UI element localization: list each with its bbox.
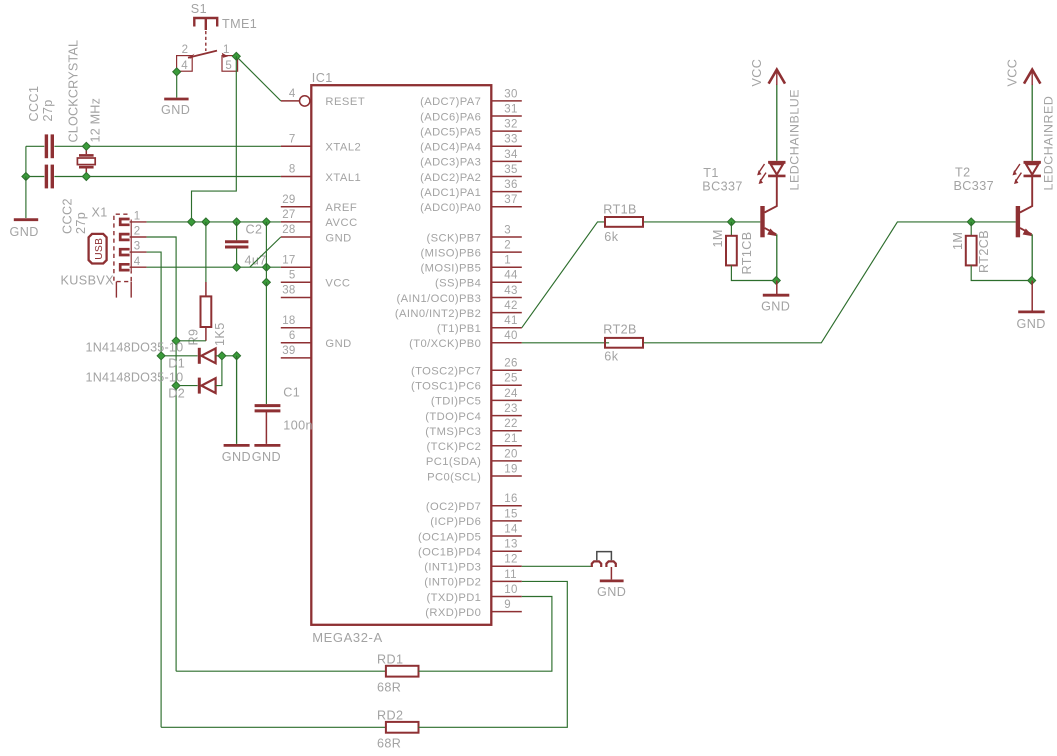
junction RT2CB top — [967, 218, 975, 226]
X1 contact finger pin 3 — [120, 249, 129, 255]
IC1 pin 44 (SS)PB4 — [491, 281, 522, 283]
junction AVCC net — [202, 218, 210, 226]
pushbutton S2 contact right — [606, 561, 615, 567]
resistor RD1 — [386, 666, 419, 677]
X1 pin line 1 — [130, 221, 147, 223]
svg-text:RD1: RD1 — [377, 653, 403, 667]
wire RD2 left (USB D+) — [161, 726, 386, 728]
IC1 pin 37 (ADC0)PA0 — [491, 206, 522, 208]
junction S1 pin4 — [173, 68, 181, 76]
IC1 pin 4 RESET (inverted) — [281, 100, 299, 102]
svg-text:(ADC2)PA2: (ADC2)PA2 — [420, 172, 481, 184]
S1 actuator bracket — [194, 18, 217, 30]
svg-text:CCC1: CCC1 — [27, 86, 41, 122]
svg-text:68R: 68R — [377, 737, 401, 751]
IC1 pin 1 (MOSI)PB5 — [491, 266, 522, 268]
svg-text:6: 6 — [289, 330, 296, 342]
ground bar (C1) — [254, 444, 280, 447]
svg-text:6k: 6k — [604, 349, 618, 363]
svg-text:18: 18 — [282, 315, 295, 327]
wire USB pin1 to AVCC net — [147, 221, 281, 223]
capacitor C1 — [255, 404, 281, 407]
svg-text:6k: 6k — [604, 230, 618, 244]
junction crystal bottom — [82, 173, 90, 181]
IC1 pin 29 AREF — [281, 206, 312, 208]
svg-text:1N4148DO35-10: 1N4148DO35-10 — [86, 341, 184, 355]
junction D1 left — [157, 352, 165, 360]
wire RT2CB top lead — [970, 222, 972, 236]
svg-text:36: 36 — [504, 179, 517, 191]
resistor R9 leads — [205, 282, 207, 296]
svg-text:24: 24 — [504, 388, 518, 400]
wire C1 to ground — [265, 411, 267, 444]
S1 pin box 4 — [177, 56, 193, 72]
junction T2 emitter — [1028, 277, 1036, 285]
junction C2 bottom — [233, 263, 241, 271]
wire RT1B to T1 base — [644, 221, 760, 223]
svg-text:2: 2 — [182, 44, 189, 56]
svg-text:C1: C1 — [283, 386, 300, 400]
wire T2 to ground — [1031, 281, 1033, 312]
svg-text:1: 1 — [223, 44, 230, 56]
IC1 pin 24 (TDI)PC5 — [491, 399, 522, 401]
svg-text:CLOCKCRYSTAL: CLOCKCRYSTAL — [67, 40, 81, 143]
S1 contact mark right — [222, 53, 228, 58]
LED LED1 (blue chain) emission arrow 1 — [759, 164, 765, 172]
wire USB pin4 to VCC pin17 — [147, 266, 281, 268]
junction crystal top — [82, 142, 90, 150]
wire PB1 to RT1B (diagonal) — [522, 222, 605, 328]
svg-text:C2: C2 — [246, 223, 263, 237]
svg-text:4: 4 — [181, 60, 188, 72]
svg-text:AREF: AREF — [325, 202, 357, 214]
svg-text:VCC: VCC — [1005, 59, 1019, 87]
wire S1 pin5 to RESET (diagonal) — [236, 56, 280, 101]
junction VCC pin5 — [262, 278, 270, 286]
svg-text:(RXD)PD0: (RXD)PD0 — [425, 607, 481, 619]
resistor RT2CB — [966, 236, 977, 266]
IC1 pin 32 (ADC5)PA5 — [491, 130, 522, 132]
svg-text:(TMS)PC3: (TMS)PC3 — [425, 426, 481, 438]
wire C2 bottom lead — [236, 249, 238, 268]
svg-text:PC1(SDA): PC1(SDA) — [426, 456, 481, 468]
IC1 pin 12 (INT1)PD3 — [491, 565, 522, 567]
svg-text:17: 17 — [282, 254, 295, 266]
svg-text:1M: 1M — [711, 229, 725, 247]
resistor RD2 — [386, 722, 419, 733]
LED LED1 (blue chain) triangle — [771, 164, 783, 174]
svg-text:(ADC3)PA3: (ADC3)PA3 — [420, 157, 481, 169]
svg-text:(ADC0)PA0: (ADC0)PA0 — [420, 202, 481, 214]
capacitor CCC2 — [45, 165, 48, 189]
ground bar (T1) — [763, 294, 790, 297]
IC1 pin 2 (MISO)PB6 — [491, 251, 522, 253]
wire D1 cathode — [216, 355, 237, 357]
svg-text:GND: GND — [10, 225, 39, 239]
IC1 pin 31 (ADC6)PA6 — [491, 115, 522, 117]
X1 right edge — [130, 220, 132, 273]
svg-text:13: 13 — [504, 539, 517, 551]
svg-text:T1: T1 — [703, 166, 719, 180]
svg-text:10: 10 — [504, 584, 517, 596]
IC1 pin 30 (ADC7)PA7 — [491, 100, 522, 102]
svg-text:2: 2 — [504, 240, 511, 252]
wire S1 pin5 down to VCC net — [192, 56, 237, 222]
transistor T2 emitter — [1020, 228, 1032, 234]
svg-text:(OC2)PD7: (OC2)PD7 — [426, 501, 481, 513]
svg-text:GND: GND — [222, 450, 251, 464]
wire caps to ground — [25, 177, 27, 219]
svg-text:(MISO)PB6: (MISO)PB6 — [421, 247, 482, 259]
wire cap join left — [25, 146, 27, 176]
svg-text:(TDI)PC5: (TDI)PC5 — [431, 396, 481, 408]
svg-text:GND: GND — [1017, 317, 1046, 331]
svg-text:21: 21 — [504, 433, 517, 445]
svg-text:GND: GND — [325, 338, 351, 350]
svg-text:(T1)PB1: (T1)PB1 — [437, 323, 481, 335]
junction AVCC net — [188, 218, 196, 226]
svg-text:CCC2: CCC2 — [61, 198, 75, 234]
svg-text:15: 15 — [504, 508, 517, 520]
svg-text:35: 35 — [504, 164, 517, 176]
svg-text:3: 3 — [504, 224, 511, 236]
svg-text:X1: X1 — [92, 206, 108, 220]
svg-text:14: 14 — [504, 523, 518, 535]
IC1 pin 20 PC1(SDA) — [491, 460, 522, 462]
svg-text:2: 2 — [134, 226, 141, 238]
pushbutton S2 contact left — [592, 561, 601, 567]
X1 dashed outline — [114, 214, 131, 281]
svg-text:XTAL2: XTAL2 — [325, 142, 361, 154]
svg-text:(MOSI)PB5: (MOSI)PB5 — [421, 263, 482, 275]
svg-text:30: 30 — [504, 88, 517, 100]
svg-text:28: 28 — [282, 224, 295, 236]
IC1 pin 33 (ADC4)PA4 — [491, 145, 522, 147]
svg-text:12 MHz: 12 MHz — [89, 98, 103, 143]
wire T2 emitter down — [1031, 234, 1033, 280]
svg-text:37: 37 — [504, 194, 517, 206]
IC1 pin 39 — [281, 357, 312, 359]
svg-text:(OC1B)PD4: (OC1B)PD4 — [418, 547, 481, 559]
svg-text:29: 29 — [282, 194, 295, 206]
svg-text:R9: R9 — [187, 329, 201, 346]
IC1 pin 3 (SCK)PB7 — [491, 236, 522, 238]
svg-text:4: 4 — [134, 256, 141, 268]
svg-text:(ICP)PD6: (ICP)PD6 — [430, 516, 481, 528]
IC1 pin 41 (T1)PB1 — [491, 327, 522, 329]
IC1 pin 17 — [281, 266, 312, 268]
IC1 pin 43 (AIN1/OC0)PB3 — [491, 297, 522, 299]
junction RT1CB top — [727, 218, 735, 226]
junction AVCC net — [262, 218, 270, 226]
wire VCC net to R9 — [205, 222, 207, 282]
junction T1 emitter — [772, 277, 780, 285]
svg-text:44: 44 — [504, 270, 518, 282]
svg-text:27p: 27p — [41, 99, 55, 121]
svg-text:7: 7 — [289, 133, 296, 145]
wire GND pin28 diagonal — [250, 237, 281, 267]
IC1 pin 15 (ICP)PD6 — [491, 520, 522, 522]
svg-text:(SCK)PB7: (SCK)PB7 — [426, 232, 481, 244]
LED LED2 (red chain) triangle — [1026, 164, 1038, 174]
svg-text:27: 27 — [282, 209, 295, 221]
junction R9 bottom — [172, 337, 180, 345]
svg-text:(TOSC2)PC7: (TOSC2)PC7 — [411, 366, 481, 378]
svg-text:25: 25 — [504, 373, 517, 385]
resistor RT1B — [605, 217, 643, 227]
transistor T2 collector — [1020, 176, 1032, 212]
X1 contact finger pin 4 — [120, 264, 129, 270]
junction left caps — [22, 173, 30, 181]
svg-text:16: 16 — [504, 493, 517, 505]
X1 contact finger pin 1 — [120, 219, 129, 225]
svg-text:1K5: 1K5 — [213, 322, 227, 346]
X1 pin line 2 — [130, 236, 147, 238]
svg-text:LEDCHAINRED: LEDCHAINRED — [1042, 96, 1056, 191]
svg-text:GND: GND — [597, 585, 626, 599]
IC1 pin 10 (TXD)PD1 — [491, 596, 522, 598]
svg-text:(ADC1)PA1: (ADC1)PA1 — [420, 187, 481, 199]
svg-text:5: 5 — [289, 269, 296, 281]
wire VCC to LED2 (red chain) — [1031, 84, 1033, 161]
wire RT1CB to emitter — [731, 265, 776, 280]
IC1 pin 5 VCC — [281, 281, 312, 283]
svg-text:RT2B: RT2B — [603, 322, 637, 336]
svg-text:1: 1 — [134, 211, 141, 223]
LED LED2 (red chain) anode bar — [1024, 161, 1041, 164]
IC1 pin 38 — [281, 297, 312, 299]
capacitor C2 — [225, 240, 248, 243]
IC IC1 body — [311, 85, 491, 625]
svg-text:MEGA32-A: MEGA32-A — [312, 630, 383, 645]
svg-text:(TDO)PC4: (TDO)PC4 — [425, 411, 481, 423]
crystal Q1 plates — [79, 154, 94, 157]
svg-text:39: 39 — [282, 345, 295, 357]
transistor T1 collector — [765, 176, 777, 212]
svg-text:(SS)PB4: (SS)PB4 — [435, 278, 481, 290]
wire C2 top lead — [236, 222, 238, 240]
wire R9 to D- net — [176, 340, 206, 342]
svg-text:TME1: TME1 — [222, 17, 257, 31]
svg-text:(ADC5)PA5: (ADC5)PA5 — [420, 126, 481, 138]
pushbutton S2 actuator — [597, 552, 612, 561]
ground bar (S2) — [600, 580, 624, 583]
svg-text:(TCK)PC2: (TCK)PC2 — [427, 441, 482, 453]
svg-text:RD2: RD2 — [377, 709, 403, 723]
wire RT2CB to emitter — [971, 265, 1031, 280]
LED LED1 (blue chain) cathode bar — [768, 175, 785, 178]
svg-text:23: 23 — [504, 403, 517, 415]
junction S1 pin5 — [232, 52, 240, 60]
svg-text:VCC: VCC — [750, 59, 764, 87]
transistor T1 emitter arrow — [767, 229, 777, 237]
svg-text:GND: GND — [325, 232, 351, 244]
svg-text:43: 43 — [504, 285, 517, 297]
ground bar (S1) — [164, 98, 188, 101]
wire XTAL1 net — [26, 176, 44, 178]
IC1 pin 34 (ADC3)PA3 — [491, 160, 522, 162]
IC1 pin 23 (TDO)PC4 — [491, 415, 522, 417]
svg-text:AVCC: AVCC — [325, 217, 357, 229]
svg-text:D1: D1 — [168, 357, 185, 371]
svg-text:3: 3 — [134, 241, 141, 253]
svg-text:GND: GND — [252, 450, 281, 464]
svg-text:22: 22 — [504, 418, 517, 430]
svg-text:1: 1 — [504, 255, 511, 267]
diode D2 — [198, 378, 201, 394]
wire VCC to LED1 (blue chain) — [776, 84, 778, 161]
wire VCC to C1 — [265, 282, 267, 404]
svg-text:11: 11 — [504, 569, 517, 581]
svg-text:19: 19 — [504, 463, 517, 475]
IC1 pin 13 (OC1B)PD4 — [491, 550, 522, 552]
svg-text:8: 8 — [289, 164, 296, 176]
junction D1 right — [218, 352, 226, 360]
svg-text:RT1B: RT1B — [603, 202, 637, 216]
svg-text:RT2CB: RT2CB — [977, 230, 991, 273]
svg-text:34: 34 — [504, 149, 518, 161]
svg-text:32: 32 — [504, 119, 517, 131]
LED LED1 (blue chain) anode bar — [768, 161, 785, 164]
wire T1 to ground — [776, 281, 778, 296]
S1 lever arm — [188, 51, 217, 58]
resistor R9 — [201, 296, 212, 327]
supply VCC arrow (T1) — [769, 70, 785, 84]
wire XTAL2 net — [26, 145, 44, 147]
resistor RT1CB — [726, 236, 737, 266]
svg-text:12: 12 — [504, 554, 517, 566]
svg-text:(ADC4)PA4: (ADC4)PA4 — [420, 142, 481, 154]
IC1 pin 21 (TCK)PC2 — [491, 445, 522, 447]
svg-text:USB: USB — [94, 238, 105, 260]
svg-text:RT1CB: RT1CB — [740, 231, 754, 274]
svg-text:(AIN0/INT2)PB2: (AIN0/INT2)PB2 — [395, 308, 481, 320]
svg-text:IC1: IC1 — [312, 71, 333, 85]
LED LED2 (red chain) emission arrow 1 — [1014, 164, 1020, 172]
crystal Q1 body — [77, 158, 95, 165]
IC1 pin 16 (OC2)PD7 — [491, 505, 522, 507]
junction D2 left — [172, 382, 180, 390]
IC1 pin 7 XTAL2 — [281, 145, 312, 147]
LED LED1 (blue chain) emission arrow 2 — [760, 173, 766, 181]
wire PB0 to RT2B — [522, 342, 609, 344]
svg-text:1M: 1M — [951, 232, 965, 250]
wire RT1CB top lead — [730, 222, 732, 236]
IC1 pin 18 — [281, 327, 312, 329]
svg-text:BC337: BC337 — [954, 179, 995, 193]
S1 actuator dashed link — [205, 31, 207, 51]
svg-text:(ADC7)PA7: (ADC7)PA7 — [420, 96, 481, 108]
svg-text:RESET: RESET — [325, 96, 365, 108]
capacitor CCC1 — [45, 134, 48, 158]
wire D1 anode — [161, 355, 198, 357]
LED LED2 (red chain) emission arrow 2 — [1016, 173, 1022, 181]
resistor RT2B — [605, 338, 643, 348]
svg-text:GND: GND — [761, 300, 790, 314]
junction AVCC net — [233, 218, 241, 226]
IC1 pin 28 GND — [281, 236, 312, 238]
IC1 pin 35 (ADC2)PA2 — [491, 176, 522, 178]
crystal Q1 leads — [85, 146, 87, 154]
svg-text:XTAL1: XTAL1 — [325, 172, 361, 184]
svg-text:LEDCHAINBLUE: LEDCHAINBLUE — [788, 89, 802, 191]
svg-text:(T0/XCK)PB0: (T0/XCK)PB0 — [409, 338, 481, 350]
svg-text:1N4148DO35-10: 1N4148DO35-10 — [86, 370, 184, 384]
svg-text:(OC1A)PD5: (OC1A)PD5 — [418, 531, 481, 543]
wire D line to ground — [236, 356, 238, 444]
IC1 pin 9 (RXD)PD0 — [491, 611, 522, 613]
wire T1 emitter down — [776, 234, 778, 280]
X1 pin line 4 — [130, 266, 147, 268]
IC1 pin 27 AVCC — [281, 221, 312, 223]
IC1 pin 22 (TMS)PC3 — [491, 430, 522, 432]
wire USB pin2 down — [147, 237, 177, 671]
IC1 pin 19 PC0(SCL) — [491, 475, 522, 477]
IC1 pin 42 (AIN0/INT2)PB2 — [491, 312, 522, 314]
svg-text:BC337: BC337 — [702, 180, 743, 194]
IC1 pin 26 (TOSC2)PC7 — [491, 369, 522, 371]
svg-text:(ADC6)PA6: (ADC6)PA6 — [420, 111, 481, 123]
svg-text:PC0(SCL): PC0(SCL) — [427, 471, 481, 483]
svg-text:(TXD)PD1: (TXD)PD1 — [427, 592, 482, 604]
svg-text:31: 31 — [504, 103, 517, 115]
wire PD3 to S2 — [522, 565, 592, 567]
IC1 pin 40 (T0/XCK)PB0 — [491, 342, 522, 344]
wire RD2 right to PD2 — [419, 581, 568, 727]
ground bar (diodes) — [224, 444, 250, 447]
svg-text:40: 40 — [504, 330, 517, 342]
IC1 pin 8 XTAL1 — [281, 176, 312, 178]
svg-text:VCC: VCC — [325, 278, 350, 290]
svg-text:4: 4 — [289, 88, 296, 100]
svg-text:(INT0)PD2: (INT0)PD2 — [424, 577, 481, 589]
transistor T1 base bar — [760, 206, 764, 237]
IC1 pin 14 (OC1A)PD5 — [491, 535, 522, 537]
transistor T1 emitter — [765, 228, 777, 234]
wire RD1 right to PD1 — [419, 597, 552, 672]
svg-text:S1: S1 — [191, 2, 207, 16]
wire D2 cathode to D1 — [216, 356, 222, 386]
diode D1 — [198, 348, 201, 364]
svg-text:4u7: 4u7 — [245, 254, 267, 268]
transistor T2 emitter arrow — [1023, 229, 1033, 237]
svg-text:68R: 68R — [377, 681, 401, 695]
wire S2 to ground — [610, 567, 612, 579]
ground bar (caps) — [14, 218, 38, 221]
IC1 pin 6 GND — [281, 342, 312, 344]
junction VCC vertical cross — [262, 263, 270, 271]
svg-text:100n: 100n — [283, 419, 313, 433]
X1 contact finger pin 2 — [120, 234, 129, 240]
svg-text:33: 33 — [504, 134, 517, 146]
wire D2 anode — [176, 385, 198, 387]
svg-text:27p: 27p — [74, 212, 88, 234]
svg-text:(INT1)PD3: (INT1)PD3 — [424, 562, 481, 574]
wire USB pin3 down — [147, 252, 162, 727]
supply VCC arrow (T2) — [1024, 70, 1040, 84]
svg-text:26: 26 — [504, 358, 517, 370]
svg-text:(AIN1/OC0)PB3: (AIN1/OC0)PB3 — [397, 293, 482, 305]
IC1 pin 11 (INT0)PD2 — [491, 580, 522, 582]
wire S1 pin4 to ground — [176, 71, 178, 97]
transistor T2 base bar — [1016, 206, 1020, 237]
junction D1 to C2 line — [233, 352, 241, 360]
svg-text:20: 20 — [504, 448, 517, 460]
X1 pin line 3 — [130, 251, 147, 253]
svg-text:5: 5 — [225, 60, 232, 72]
IC1 pin 25 (TOSC1)PC6 — [491, 384, 522, 386]
svg-text:KUSBVX: KUSBVX — [61, 274, 115, 288]
